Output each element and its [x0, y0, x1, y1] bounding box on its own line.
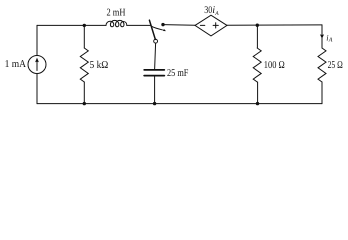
wire 100 ohm branch lower [257, 82, 259, 104]
resistor R2 100 Ohm [253, 48, 261, 82]
current source I1 1 mA [28, 56, 46, 74]
node dot bottom of 100 ohm branch [256, 102, 259, 105]
current arrow iA [320, 34, 324, 39]
minus sign inside diamond [200, 24, 204, 26]
wire 5k branch upper [83, 25, 85, 48]
wire capacitor branch upper [155, 43, 156, 70]
wire left rail upper [36, 25, 38, 55]
resistor R3 25 Ohm [318, 48, 326, 82]
wire bottom rail [37, 103, 322, 105]
resistor R1 5 kOhm [80, 48, 88, 82]
switch pivot circle [154, 39, 158, 43]
svg-text:A: A [328, 38, 333, 44]
label iA [326, 33, 333, 43]
node dot bottom of 5k branch [83, 102, 86, 105]
node dot top of 100 ohm branch [256, 24, 259, 27]
wire 100 ohm branch upper [256, 25, 258, 48]
svg-text:25 Ω: 25 Ω [328, 60, 343, 71]
wire switch to dependent source [163, 24, 195, 27]
wire 5k branch lower [83, 82, 85, 104]
svg-text:1 mA: 1 mA [5, 59, 27, 70]
wire capacitor branch lower [154, 76, 156, 104]
svg-text:30: 30 [204, 5, 212, 16]
capacitor C1 25 mF [144, 70, 164, 76]
wire right rail upper [321, 25, 323, 48]
wire left rail lower [36, 74, 38, 104]
switch motion arc arrow [151, 26, 166, 31]
svg-text:100 Ω: 100 Ω [264, 60, 285, 71]
svg-text:25 mF: 25 mF [167, 68, 189, 79]
svg-text:2 mH: 2 mH [107, 8, 126, 19]
wire top-left segment [37, 24, 106, 26]
node dot bottom of capacitor branch [153, 102, 156, 105]
switch SW1 blade [149, 20, 155, 39]
wire right rail lower [321, 82, 323, 104]
node dot right switch contact [161, 23, 164, 26]
dependent source U1 diamond [195, 15, 227, 36]
wire dependent source to top-right corner [227, 24, 322, 26]
node dot top of 5k branch [83, 24, 86, 27]
inductor L1 2 mH [106, 20, 127, 26]
label 30iA [204, 5, 219, 17]
svg-text:5 kΩ: 5 kΩ [90, 60, 109, 71]
svg-text:A: A [214, 11, 219, 17]
wire inductor to switch [127, 24, 151, 26]
plus sign inside diamond [213, 23, 218, 28]
